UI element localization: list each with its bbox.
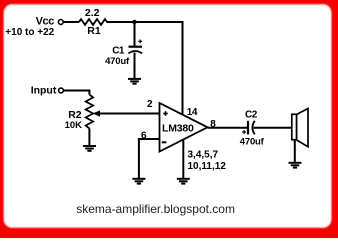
ground below R2 xyxy=(83,146,96,151)
wire pin 6 to ground xyxy=(139,139,160,178)
svg-text:470uf: 470uf xyxy=(105,56,130,67)
svg-text:10,11,12: 10,11,12 xyxy=(188,161,227,172)
wire Input to R2 xyxy=(64,91,90,95)
svg-text:skema-amplifier.blogspot.com: skema-amplifier.blogspot.com xyxy=(76,202,235,216)
wire R1 to pin14 corner xyxy=(107,22,183,114)
svg-text:470uf: 470uf xyxy=(240,136,265,147)
capacitor C1 xyxy=(129,40,143,54)
svg-text:10K: 10K xyxy=(65,120,83,131)
wiper arrow of R2 xyxy=(93,110,160,116)
svg-text:2: 2 xyxy=(147,99,153,110)
speaker LS1 xyxy=(292,109,308,147)
svg-text:2.2: 2.2 xyxy=(85,7,100,19)
svg-text:8: 8 xyxy=(210,119,216,130)
ground below pin 6 xyxy=(132,179,145,184)
wire C1 to ground xyxy=(134,53,136,79)
potentiometer R2 xyxy=(86,95,93,129)
svg-text:Vcc: Vcc xyxy=(36,16,55,28)
svg-text:C2: C2 xyxy=(245,110,258,121)
terminal Input xyxy=(59,88,64,93)
wire pin 8 output to C2 xyxy=(208,127,248,129)
svg-text:Input: Input xyxy=(31,85,57,97)
minus input mark xyxy=(162,141,167,143)
plus input mark xyxy=(163,111,168,116)
svg-text:+10 to +22: +10 to +22 xyxy=(5,27,54,38)
wire R2 to ground xyxy=(88,129,90,146)
op-amp U1 LM380 xyxy=(160,103,208,152)
resistor R1 xyxy=(79,19,107,25)
wire speaker to ground xyxy=(294,140,296,162)
wire Vcc to R1 xyxy=(63,21,79,23)
svg-text:3,4,5,7: 3,4,5,7 xyxy=(188,150,219,161)
svg-text:6: 6 xyxy=(141,130,147,141)
junction node xyxy=(132,20,136,24)
wire bottom pins to ground xyxy=(182,139,184,178)
svg-text:R1: R1 xyxy=(87,25,101,37)
wire junction to C1 xyxy=(134,22,136,46)
capacitor C2 xyxy=(242,121,255,135)
svg-text:LM380: LM380 xyxy=(162,122,194,134)
svg-text:14: 14 xyxy=(187,107,198,118)
svg-text:C1: C1 xyxy=(112,46,125,57)
terminal Vcc xyxy=(58,20,63,25)
ground below C1 xyxy=(128,79,141,84)
ground below speaker xyxy=(289,163,302,168)
ground below bottom pins xyxy=(177,179,190,184)
wire C2 to speaker xyxy=(254,127,292,129)
